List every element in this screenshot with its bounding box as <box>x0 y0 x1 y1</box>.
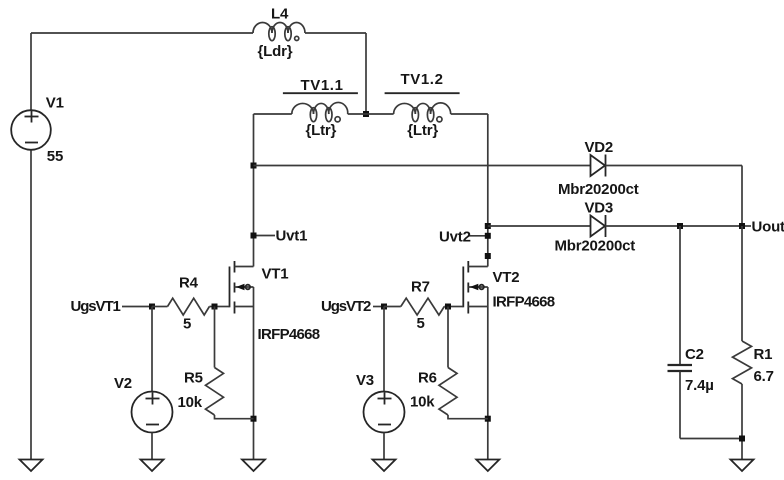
source lead <box>468 306 488 308</box>
svg-text:V1: V1 <box>46 95 64 112</box>
junction R7 right / gate node <box>445 304 451 310</box>
svg-text:7.4µ: 7.4µ <box>685 377 714 394</box>
svg-text:VD3: VD3 <box>585 200 614 217</box>
wire VT1 source down <box>253 287 255 460</box>
svg-text:10k: 10k <box>178 394 203 411</box>
svg-text:R6: R6 <box>418 370 437 387</box>
junction on drain wire <box>485 253 491 259</box>
wire R1 bottom lead <box>741 384 743 460</box>
resistor R7 <box>384 298 448 315</box>
transformer core bar TV1.1 <box>283 92 358 94</box>
wire between windings <box>348 113 394 115</box>
resistor R1 <box>733 341 752 384</box>
gate lead <box>215 306 230 308</box>
wire left vertical down to VT1 drain <box>253 114 255 267</box>
node UgsVT1 tie <box>122 306 149 308</box>
ground for VT2 source <box>476 460 499 472</box>
wire to TV1.1 left <box>254 113 292 115</box>
node Uout tie <box>745 225 751 227</box>
winding TV1.1 <box>292 102 348 121</box>
junction to VD2 wire <box>251 163 257 169</box>
channel bar middle <box>234 283 236 293</box>
wire C2 bottom lead <box>679 372 681 439</box>
svg-text:IRFP4668: IRFP4668 <box>258 326 320 343</box>
junction node Uvt2 <box>485 233 491 239</box>
junction node UgsVT2 <box>381 304 387 310</box>
svg-text:VD2: VD2 <box>585 139 614 156</box>
svg-text:C2: C2 <box>685 346 704 363</box>
wire top from L4 to right corner <box>305 32 366 34</box>
voltage source V2 <box>132 392 173 460</box>
ground for V3 <box>373 460 396 472</box>
svg-text:{Ltr}: {Ltr} <box>407 122 438 139</box>
wire VT2 source down <box>487 287 489 460</box>
resistor R5 <box>206 307 254 419</box>
svg-text:Mbr20200ct: Mbr20200ct <box>558 181 639 198</box>
gate lead <box>448 306 463 308</box>
winding TV1.2 <box>394 103 451 122</box>
svg-text:IRFP4668: IRFP4668 <box>493 294 555 311</box>
junction node UgsVT1 <box>149 304 155 310</box>
junction R1 bottom <box>739 436 745 442</box>
body lead with arrow and dot <box>235 286 254 288</box>
channel bar top <box>467 261 469 273</box>
svg-text:UgsVT2: UgsVT2 <box>321 298 371 315</box>
svg-text:R1: R1 <box>754 346 773 363</box>
svg-text:R5: R5 <box>184 370 203 387</box>
junction node Uout <box>739 223 745 229</box>
node UgsVT2 tie <box>373 306 381 308</box>
svg-text:{Ldr}: {Ldr} <box>258 43 293 60</box>
svg-text:Uvt2: Uvt2 <box>439 229 471 246</box>
svg-text:5: 5 <box>417 315 425 332</box>
junction VD3 wire <box>485 223 491 229</box>
drain lead <box>235 266 254 268</box>
svg-text:5: 5 <box>183 316 191 333</box>
wire VD2 cathode <box>606 165 743 167</box>
channel bar top <box>234 261 236 273</box>
junction on transformer wire <box>363 111 369 117</box>
wire bottom connecting C2 to R1 <box>680 438 742 440</box>
wire VD2 anode <box>254 165 591 167</box>
junction R4 right / gate node <box>212 304 218 310</box>
junction R6 bottom <box>485 416 491 422</box>
wire VD3 cathode to Uout <box>606 225 743 227</box>
node Uvt2 tie <box>468 235 485 237</box>
voltage source V3 <box>364 392 405 460</box>
ground for output <box>731 460 754 472</box>
wire top from V1 to L4 <box>31 32 253 34</box>
svg-text:R7: R7 <box>411 279 430 296</box>
MOSFET VT2 <box>448 261 488 314</box>
MOSFET VT1 <box>215 261 254 314</box>
svg-text:Uout: Uout <box>752 219 784 236</box>
node Uvt1 tie <box>257 235 276 237</box>
channel bar bottom <box>467 302 469 314</box>
wire V3 branch <box>383 307 385 392</box>
resistor R6 <box>439 307 488 419</box>
resistor R4 <box>152 298 215 315</box>
svg-text:V2: V2 <box>114 375 132 392</box>
gate bar <box>229 267 231 308</box>
svg-text:V3: V3 <box>356 372 374 389</box>
wire R1 top lead <box>741 226 743 341</box>
voltage source V1 <box>11 33 51 460</box>
ground for V2 <box>141 460 164 472</box>
svg-text:TV1.2: TV1.2 <box>401 71 444 88</box>
gate bar <box>462 267 464 308</box>
body lead with arrow and dot <box>468 286 488 288</box>
svg-text:55: 55 <box>47 148 63 165</box>
junction node Uvt1 <box>251 233 257 239</box>
source lead <box>235 306 254 308</box>
svg-text:{Ltr}: {Ltr} <box>306 122 337 139</box>
wire VD3 anode <box>488 225 591 227</box>
svg-text:R4: R4 <box>179 275 199 292</box>
junction R5 bottom <box>251 416 257 422</box>
wire right vertical down to VT2 drain <box>487 114 489 267</box>
wire V2 branch <box>151 307 153 392</box>
drain lead <box>468 266 488 268</box>
wire C2 top lead <box>679 226 681 365</box>
diode VD2 <box>591 155 606 177</box>
svg-text:VT1: VT1 <box>262 266 289 283</box>
capacitor C2 <box>668 365 693 371</box>
channel bar bottom <box>234 302 236 314</box>
svg-text:UgsVT1: UgsVT1 <box>71 298 121 315</box>
channel bar middle <box>467 283 469 293</box>
wire TV1.2 right <box>451 113 488 115</box>
wire VD2 down to output <box>741 166 743 227</box>
inductor L4 <box>253 23 305 41</box>
svg-text:Uvt1: Uvt1 <box>276 228 308 245</box>
svg-text:L4: L4 <box>271 6 289 23</box>
junction C2 tap <box>677 223 683 229</box>
ground for VT1 source <box>242 460 265 472</box>
svg-text:TV1.1: TV1.1 <box>301 77 344 94</box>
svg-text:6.7: 6.7 <box>754 368 774 385</box>
svg-text:10k: 10k <box>410 394 435 411</box>
svg-text:VT2: VT2 <box>493 269 520 286</box>
transformer core bar TV1.2 <box>385 92 460 94</box>
ground for V1 <box>20 460 43 472</box>
svg-text:Mbr20200ct: Mbr20200ct <box>555 238 636 255</box>
wire drop from top corner to transformer wire <box>365 33 367 114</box>
diode VD3 <box>591 215 606 237</box>
